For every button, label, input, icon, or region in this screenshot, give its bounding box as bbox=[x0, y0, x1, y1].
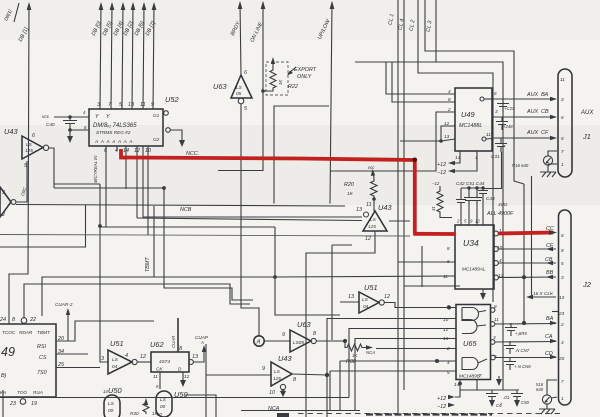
svg-text:7: 7 bbox=[561, 149, 564, 154]
svg-text:C43: C43 bbox=[486, 196, 495, 201]
wire U62 top heavy bbox=[177, 318, 179, 352]
svg-text:1: 1 bbox=[561, 396, 564, 401]
node CF arrow bbox=[546, 247, 553, 251]
node DB top-left corner stub bbox=[14, 3, 19, 22]
wire CL2 net bbox=[418, 0, 493, 302]
receiver U65 body bbox=[456, 305, 491, 380]
svg-text:A: A bbox=[200, 340, 204, 345]
resistor R20 body bbox=[371, 178, 378, 211]
wire CLK riser x533 bbox=[531, 176, 533, 297]
capacitor C40 bbox=[63, 117, 77, 136]
wire DB[7] bbox=[153, 5, 154, 109]
wire U65 pin14 supply bbox=[455, 380, 460, 398]
svg-text:U43: U43 bbox=[278, 354, 292, 363]
junction U65 pin9 bbox=[447, 306, 451, 310]
wire CC-BA riser x524 bbox=[523, 184, 525, 323]
svg-text:MC1489B: MC1489B bbox=[459, 374, 480, 379]
svg-text:C31: C31 bbox=[491, 154, 500, 159]
wire CUAR arrow bbox=[67, 311, 69, 341]
node UP/LOW arrowhead bbox=[330, 1, 335, 9]
wire red to U34 pin2 bbox=[413, 232, 455, 236]
gate U50b body bbox=[156, 391, 172, 417]
node bus arrowheads bbox=[99, 2, 157, 10]
svg-text:4: 4 bbox=[115, 148, 118, 154]
svg-text:R88: R88 bbox=[346, 359, 356, 365]
svg-text:13: 13 bbox=[356, 207, 362, 213]
svg-text:DM/8ᵣₒ 74LS365: DM/8ᵣₒ 74LS365 bbox=[93, 123, 137, 129]
connector J2 body bbox=[559, 210, 572, 405]
wire U43a output to bus bbox=[49, 148, 54, 188]
wire vertical x164 bbox=[164, 188, 253, 300]
svg-text:14: 14 bbox=[123, 148, 129, 154]
svg-text:U63: U63 bbox=[297, 320, 311, 329]
svg-text:6: 6 bbox=[561, 233, 564, 238]
wire bus y221 bbox=[137, 218, 410, 221]
svg-text:Y: Y bbox=[106, 114, 110, 120]
wire CF row bbox=[498, 248, 556, 250]
gate U50a body bbox=[104, 395, 120, 417]
wire red CC row to J2 pin6 bbox=[498, 233, 553, 234]
svg-text:2: 2 bbox=[560, 322, 564, 327]
svg-text:.N CN7: .N CN7 bbox=[515, 348, 530, 353]
wire CL1 net bbox=[398, 0, 455, 414]
svg-text:U43: U43 bbox=[378, 203, 392, 212]
ground arrow U62 D bbox=[180, 380, 186, 387]
svg-text:1K: 1K bbox=[152, 411, 159, 416]
svg-text:640: 640 bbox=[536, 387, 544, 392]
node R22 top arrow bbox=[272, 60, 274, 66]
svg-text:11: 11 bbox=[494, 317, 499, 322]
svg-text:9: 9 bbox=[282, 332, 285, 338]
svg-text:7: 7 bbox=[561, 379, 564, 384]
wire vertical x100 bbox=[100, 184, 108, 362]
svg-text:11: 11 bbox=[443, 274, 448, 279]
wire U52 pin10 drop bbox=[143, 146, 362, 235]
inverter U63b body bbox=[290, 330, 311, 352]
svg-text:3: 3 bbox=[493, 335, 496, 340]
receiver U34 body bbox=[455, 225, 494, 289]
wire pin2 row bbox=[376, 348, 456, 350]
svg-text:23: 23 bbox=[9, 401, 16, 407]
wire U49 pin14 supply bbox=[455, 151, 460, 163]
node -12 arrow U65 bbox=[448, 403, 460, 407]
svg-text:CK: CK bbox=[156, 367, 163, 372]
node +12 arrow bbox=[448, 161, 455, 165]
svg-text:3: 3 bbox=[97, 102, 100, 108]
svg-text:LS: LS bbox=[370, 217, 377, 222]
svg-text:R20: R20 bbox=[344, 182, 354, 188]
ground hatch J2 bbox=[539, 409, 555, 414]
wire CF riser x332 bbox=[332, 245, 352, 340]
wire BB row bbox=[498, 276, 556, 279]
svg-text:vcc: vcc bbox=[368, 165, 375, 170]
svg-text:AUX CF: AUX CF bbox=[526, 130, 549, 136]
svg-text:13: 13 bbox=[559, 295, 565, 300]
gate U65 mid arc bbox=[462, 320, 486, 334]
buffer U43c body bbox=[271, 362, 292, 386]
node ON LINE arrowhead bbox=[261, 1, 266, 9]
svg-text:vcc: vcc bbox=[42, 114, 50, 119]
svg-text:3: 3 bbox=[495, 109, 498, 114]
wire left edge drop bbox=[2, 390, 4, 417]
svg-text:EXPORT: EXPORT bbox=[294, 67, 317, 73]
wire U43a enable drop bbox=[16, 161, 27, 202]
svg-text:CD: CD bbox=[545, 351, 553, 357]
wire upper-right feed bbox=[425, 0, 524, 184]
svg-text:AUX: AUX bbox=[580, 110, 594, 116]
wire bottom line y410 bbox=[241, 410, 360, 412]
pin bubble U51a bbox=[132, 359, 137, 364]
node R30 arrow bbox=[144, 398, 148, 405]
svg-text:13: 13 bbox=[444, 134, 450, 139]
svg-text:TCOC: TCOC bbox=[2, 330, 16, 335]
svg-text:10: 10 bbox=[443, 317, 449, 322]
svg-text:+12: +12 bbox=[437, 162, 446, 168]
wire U52 pin6 drop bbox=[105, 146, 107, 227]
junction BA riser bbox=[522, 321, 526, 325]
node arrow into J2 pin20 bbox=[550, 355, 557, 359]
capacitor C28 bbox=[496, 117, 508, 130]
ground arrow G2 bbox=[179, 140, 185, 147]
wire bus y188 bbox=[54, 187, 164, 189]
wire bottom cap bus bbox=[460, 389, 519, 391]
svg-text:10: 10 bbox=[269, 390, 275, 396]
wire bus y235 to U34 area bbox=[0, 235, 410, 237]
node DB[1] arrowhead bbox=[27, 2, 32, 10]
svg-text:11: 11 bbox=[486, 132, 491, 137]
junction U65 pin14 bbox=[458, 382, 462, 386]
svg-text:ALL 4900F: ALL 4900F bbox=[486, 211, 514, 217]
svg-text:9: 9 bbox=[447, 304, 450, 309]
svg-text:8: 8 bbox=[12, 317, 15, 323]
svg-text:NCB: NCB bbox=[180, 207, 192, 213]
svg-text:6: 6 bbox=[561, 115, 564, 120]
wire cap bus bbox=[461, 187, 483, 189]
wire ON LINE to U49 pin2 bbox=[218, 91, 263, 171]
node arrow into J1 pin8 bbox=[550, 136, 557, 140]
svg-text:TOO: TOO bbox=[17, 390, 27, 395]
node bottom blob bbox=[277, 413, 289, 417]
junction red corner bbox=[413, 158, 418, 163]
capacitor C47b bottom bbox=[486, 390, 498, 400]
svg-text:3: 3 bbox=[101, 356, 104, 362]
node R88 arrow bbox=[366, 345, 373, 349]
svg-text:11: 11 bbox=[366, 202, 372, 208]
buffer U52 body bbox=[89, 109, 163, 146]
svg-text:6: 6 bbox=[104, 148, 107, 154]
svg-text:1K: 1K bbox=[347, 191, 354, 196]
wire U43b out drop bbox=[306, 231, 375, 417]
inverter U51a body bbox=[108, 350, 132, 374]
svg-text:125: 125 bbox=[25, 148, 33, 153]
wire DB[0] bbox=[100, 5, 101, 109]
wire red vertical drop bbox=[413, 159, 417, 234]
pin bubble left gate bbox=[11, 200, 16, 205]
node arrow into J1 pin3 bbox=[550, 97, 557, 101]
svg-text:9: 9 bbox=[151, 102, 154, 108]
svg-text:04: 04 bbox=[363, 304, 369, 309]
wire U43c out riser bbox=[327, 319, 456, 417]
svg-text:G2: G2 bbox=[153, 137, 160, 142]
svg-text:R16 640: R16 640 bbox=[512, 163, 529, 168]
junction U49 pin13 bbox=[439, 139, 443, 143]
wire U52 pin12 drop bbox=[136, 146, 138, 218]
node A circle bbox=[254, 336, 264, 346]
svg-text:M/CYREAL IN: M/CYREAL IN bbox=[93, 155, 98, 183]
gate U65 top nand bbox=[462, 308, 486, 321]
svg-text:G1: G1 bbox=[153, 113, 160, 118]
svg-text:10: 10 bbox=[145, 148, 151, 154]
capacitor C46 on CD bbox=[504, 357, 516, 370]
junction BB riser bbox=[522, 275, 526, 279]
wire ON LINE net bbox=[262, 2, 264, 91]
svg-text:LS: LS bbox=[274, 369, 281, 374]
node CLK arrow bbox=[526, 295, 533, 299]
wire J2 pin7 ground bbox=[547, 380, 557, 395]
pin circle uart top bbox=[21, 318, 27, 324]
svg-text:8: 8 bbox=[448, 97, 451, 102]
svg-text:4: 4 bbox=[448, 89, 451, 94]
junction pin11 feed bbox=[273, 275, 277, 279]
svg-text:CB: CB bbox=[545, 257, 553, 263]
wire jumper x422 bbox=[421, 246, 423, 287]
svg-text:12: 12 bbox=[365, 236, 371, 242]
wire U34 pin11 feed bbox=[275, 276, 455, 277]
svg-text:+248: +248 bbox=[503, 124, 513, 129]
pin bubble U51b bbox=[379, 300, 384, 305]
svg-text:19: 19 bbox=[31, 401, 37, 407]
wire U62 CK drop bbox=[159, 372, 161, 389]
wire 16X CLK row bbox=[529, 296, 556, 298]
flipflop U62 body bbox=[151, 352, 189, 372]
svg-text:8: 8 bbox=[561, 136, 564, 141]
svg-text:4S74: 4S74 bbox=[159, 359, 170, 364]
svg-text:8: 8 bbox=[313, 331, 316, 337]
wire DB[2] bbox=[132, 5, 133, 109]
svg-text:10: 10 bbox=[157, 412, 162, 417]
svg-text:31: 31 bbox=[431, 206, 436, 211]
svg-text:11: 11 bbox=[560, 77, 565, 82]
svg-text:RDAR: RDAR bbox=[19, 330, 33, 335]
wire CB row bbox=[498, 262, 556, 264]
wire TBMT riser bbox=[42, 206, 275, 316]
svg-text:+₁6R5: +₁6R5 bbox=[515, 331, 527, 336]
node export arrow bbox=[288, 67, 296, 74]
svg-text:11: 11 bbox=[153, 374, 158, 379]
ground circle J2 bbox=[542, 395, 551, 404]
wire U43c output bbox=[292, 374, 327, 375]
svg-text:7S0: 7S0 bbox=[37, 370, 47, 376]
wire pin22 riser bbox=[24, 284, 250, 318]
wire CD row bbox=[495, 357, 556, 359]
node BRDY arrowhead bbox=[238, 1, 243, 9]
svg-text:U50: U50 bbox=[108, 386, 122, 395]
wire BRDY net bbox=[240, 3, 241, 74]
node arrow into J2 pin4 bbox=[550, 339, 557, 343]
svg-text:3: 3 bbox=[561, 275, 564, 280]
svg-text:MC1489AL: MC1489AL bbox=[462, 267, 486, 272]
svg-text:2: 2 bbox=[447, 107, 451, 112]
wire U62 out to CUAP arrow bbox=[193, 348, 204, 362]
svg-text:AUX CB: AUX CB bbox=[526, 109, 549, 115]
svg-text:12: 12 bbox=[134, 148, 140, 154]
pin bubble U43c enable bbox=[280, 384, 285, 389]
wire G2 to ground bbox=[171, 130, 183, 140]
svg-text:Y: Y bbox=[95, 114, 99, 120]
svg-text:+12: +12 bbox=[437, 396, 446, 402]
wire DB[6] bbox=[143, 5, 144, 109]
svg-text:RUA: RUA bbox=[33, 390, 43, 395]
wire CS pin34 bbox=[56, 353, 88, 355]
capacitor C25 bbox=[497, 99, 509, 112]
gate left-edge body bbox=[0, 187, 11, 217]
uart chip body bbox=[0, 324, 56, 397]
inverter U51b body bbox=[359, 292, 379, 313]
svg-text:U43: U43 bbox=[4, 127, 18, 136]
wire riser x206 bbox=[205, 344, 207, 417]
svg-text:B): B) bbox=[1, 373, 7, 379]
svg-text:U52: U52 bbox=[165, 95, 179, 104]
pin bubble U63 bbox=[238, 98, 244, 104]
svg-text:1: 1 bbox=[561, 162, 564, 167]
svg-text:3: 3 bbox=[2, 190, 5, 196]
svg-text:05: 05 bbox=[236, 91, 242, 96]
svg-text:6: 6 bbox=[32, 133, 35, 139]
wire CL3 net bbox=[355, 0, 503, 390]
svg-text:CUAR-2: CUAR-2 bbox=[55, 302, 73, 307]
wire cap bus riser bbox=[483, 152, 502, 189]
junction R20 bottom bbox=[372, 197, 376, 201]
svg-text:CA: CA bbox=[545, 334, 553, 340]
wire pin4 row bbox=[340, 360, 456, 362]
wire U49 pin1 supply bbox=[455, 151, 477, 171]
wire BA row bbox=[495, 323, 556, 326]
svg-text:125: 125 bbox=[273, 376, 281, 381]
capacitor C51 bbox=[464, 188, 474, 225]
wire U43c input bbox=[206, 374, 271, 376]
node arrow into J1 pin6 bbox=[550, 115, 557, 119]
svg-text:5: 5 bbox=[561, 261, 564, 266]
resistor R88 body bbox=[345, 341, 370, 351]
svg-text:12: 12 bbox=[140, 354, 146, 360]
pin bubbles U34 right bbox=[494, 231, 499, 236]
svg-text:MC1488L: MC1488L bbox=[459, 123, 482, 129]
svg-text:7: 7 bbox=[479, 373, 482, 378]
ground arrow C47b bbox=[489, 400, 495, 407]
junction U43c out bbox=[325, 373, 329, 377]
ground arrow C50 bbox=[514, 400, 520, 407]
junction pin4 bbox=[435, 359, 439, 363]
svg-text:13: 13 bbox=[128, 102, 134, 108]
wire riser x355 pin13 bbox=[355, 339, 456, 412]
wire vertical x275 bbox=[275, 227, 340, 315]
resistor R22 dashed box bbox=[266, 62, 288, 95]
wire DB[1] vertical bus line bbox=[9, 5, 29, 324]
ground hatch J1 bbox=[540, 172, 556, 177]
svg-text:TBMT: TBMT bbox=[145, 257, 151, 272]
wire TSO pin25 bbox=[56, 367, 100, 369]
svg-text:12: 12 bbox=[384, 294, 390, 300]
module box bbox=[274, 106, 329, 204]
svg-text:9: 9 bbox=[262, 366, 265, 372]
node +12 arrow U65 bbox=[448, 395, 455, 399]
wire bottom bus y397 bbox=[0, 397, 349, 399]
ground arrow U43c bbox=[280, 390, 286, 397]
wire riser x330 bbox=[329, 371, 331, 411]
svg-text:C40: C40 bbox=[46, 122, 55, 127]
svg-text:−12: −12 bbox=[432, 181, 440, 186]
svg-text:.01: .01 bbox=[503, 395, 510, 400]
node BB arrow bbox=[546, 275, 553, 279]
svg-text:8: 8 bbox=[561, 248, 564, 253]
node ground circle arrow J1 bbox=[546, 158, 551, 163]
junction x100/y226 bbox=[98, 224, 102, 228]
svg-text:−12: −12 bbox=[437, 170, 446, 176]
wire riser x349 bbox=[349, 329, 456, 398]
svg-text:U49: U49 bbox=[461, 110, 475, 119]
svg-text:AUX BA: AUX BA bbox=[526, 92, 549, 98]
pin bubble U63b bbox=[311, 338, 316, 343]
junction vcc bbox=[68, 115, 72, 119]
svg-text:J2: J2 bbox=[582, 280, 591, 289]
svg-text:LS: LS bbox=[108, 401, 115, 406]
svg-text:LS: LS bbox=[236, 85, 243, 90]
svg-text:NCA: NCA bbox=[366, 350, 375, 355]
pin circle uart bottom bbox=[20, 399, 26, 405]
svg-text:00: 00 bbox=[160, 404, 166, 409]
wire U51a output bbox=[137, 361, 151, 363]
wire U49 pin4 feed bbox=[386, 62, 455, 94]
svg-text:ONLY: ONLY bbox=[297, 74, 312, 80]
wire U62 D drop bbox=[182, 372, 184, 380]
wire UP/LOW net bbox=[330, 2, 332, 204]
wire J1 pin7 ground bbox=[548, 151, 557, 156]
wire U49 pin2 feed bbox=[330, 112, 455, 171]
pin G2 bubble bbox=[166, 128, 171, 133]
svg-text:U62: U62 bbox=[150, 340, 164, 349]
svg-text:8: 8 bbox=[293, 377, 296, 383]
svg-text:BA: BA bbox=[546, 316, 554, 322]
svg-text:U65: U65 bbox=[463, 339, 477, 348]
buffer U43b mid body bbox=[363, 211, 387, 231]
svg-text:4UD: 4UD bbox=[498, 202, 508, 207]
wire U63b output bbox=[316, 340, 345, 342]
svg-text:12: 12 bbox=[475, 219, 480, 224]
svg-text:NCA: NCA bbox=[268, 406, 280, 412]
svg-text:C50: C50 bbox=[521, 400, 529, 405]
svg-text:00: 00 bbox=[108, 408, 114, 413]
resistor R22 body bbox=[263, 66, 276, 91]
wire bus y206 bbox=[16, 205, 345, 207]
wire U49 pin12-13 bracket bbox=[400, 126, 455, 141]
wire J1 pin1 ground bbox=[548, 163, 557, 165]
capacitor C43 bbox=[478, 188, 488, 225]
svg-text:2: 2 bbox=[1, 212, 5, 218]
wire C40 to U52 pin bbox=[70, 129, 89, 131]
junction U63b output bbox=[343, 339, 347, 343]
wire CL4 net bbox=[404, 0, 460, 390]
wire AUX BA row bbox=[492, 98, 556, 100]
svg-text:U51: U51 bbox=[110, 339, 124, 348]
wire U51b input bbox=[340, 301, 359, 303]
svg-text:20: 20 bbox=[558, 356, 565, 361]
wire U49 pin8 feed bbox=[392, 62, 455, 102]
junction ON LINE / R22 bbox=[261, 89, 265, 93]
svg-text:49: 49 bbox=[1, 345, 15, 359]
svg-text:8: 8 bbox=[179, 346, 182, 352]
svg-text:CUAR: CUAR bbox=[171, 336, 176, 348]
ground arrow C40 bbox=[67, 136, 73, 143]
